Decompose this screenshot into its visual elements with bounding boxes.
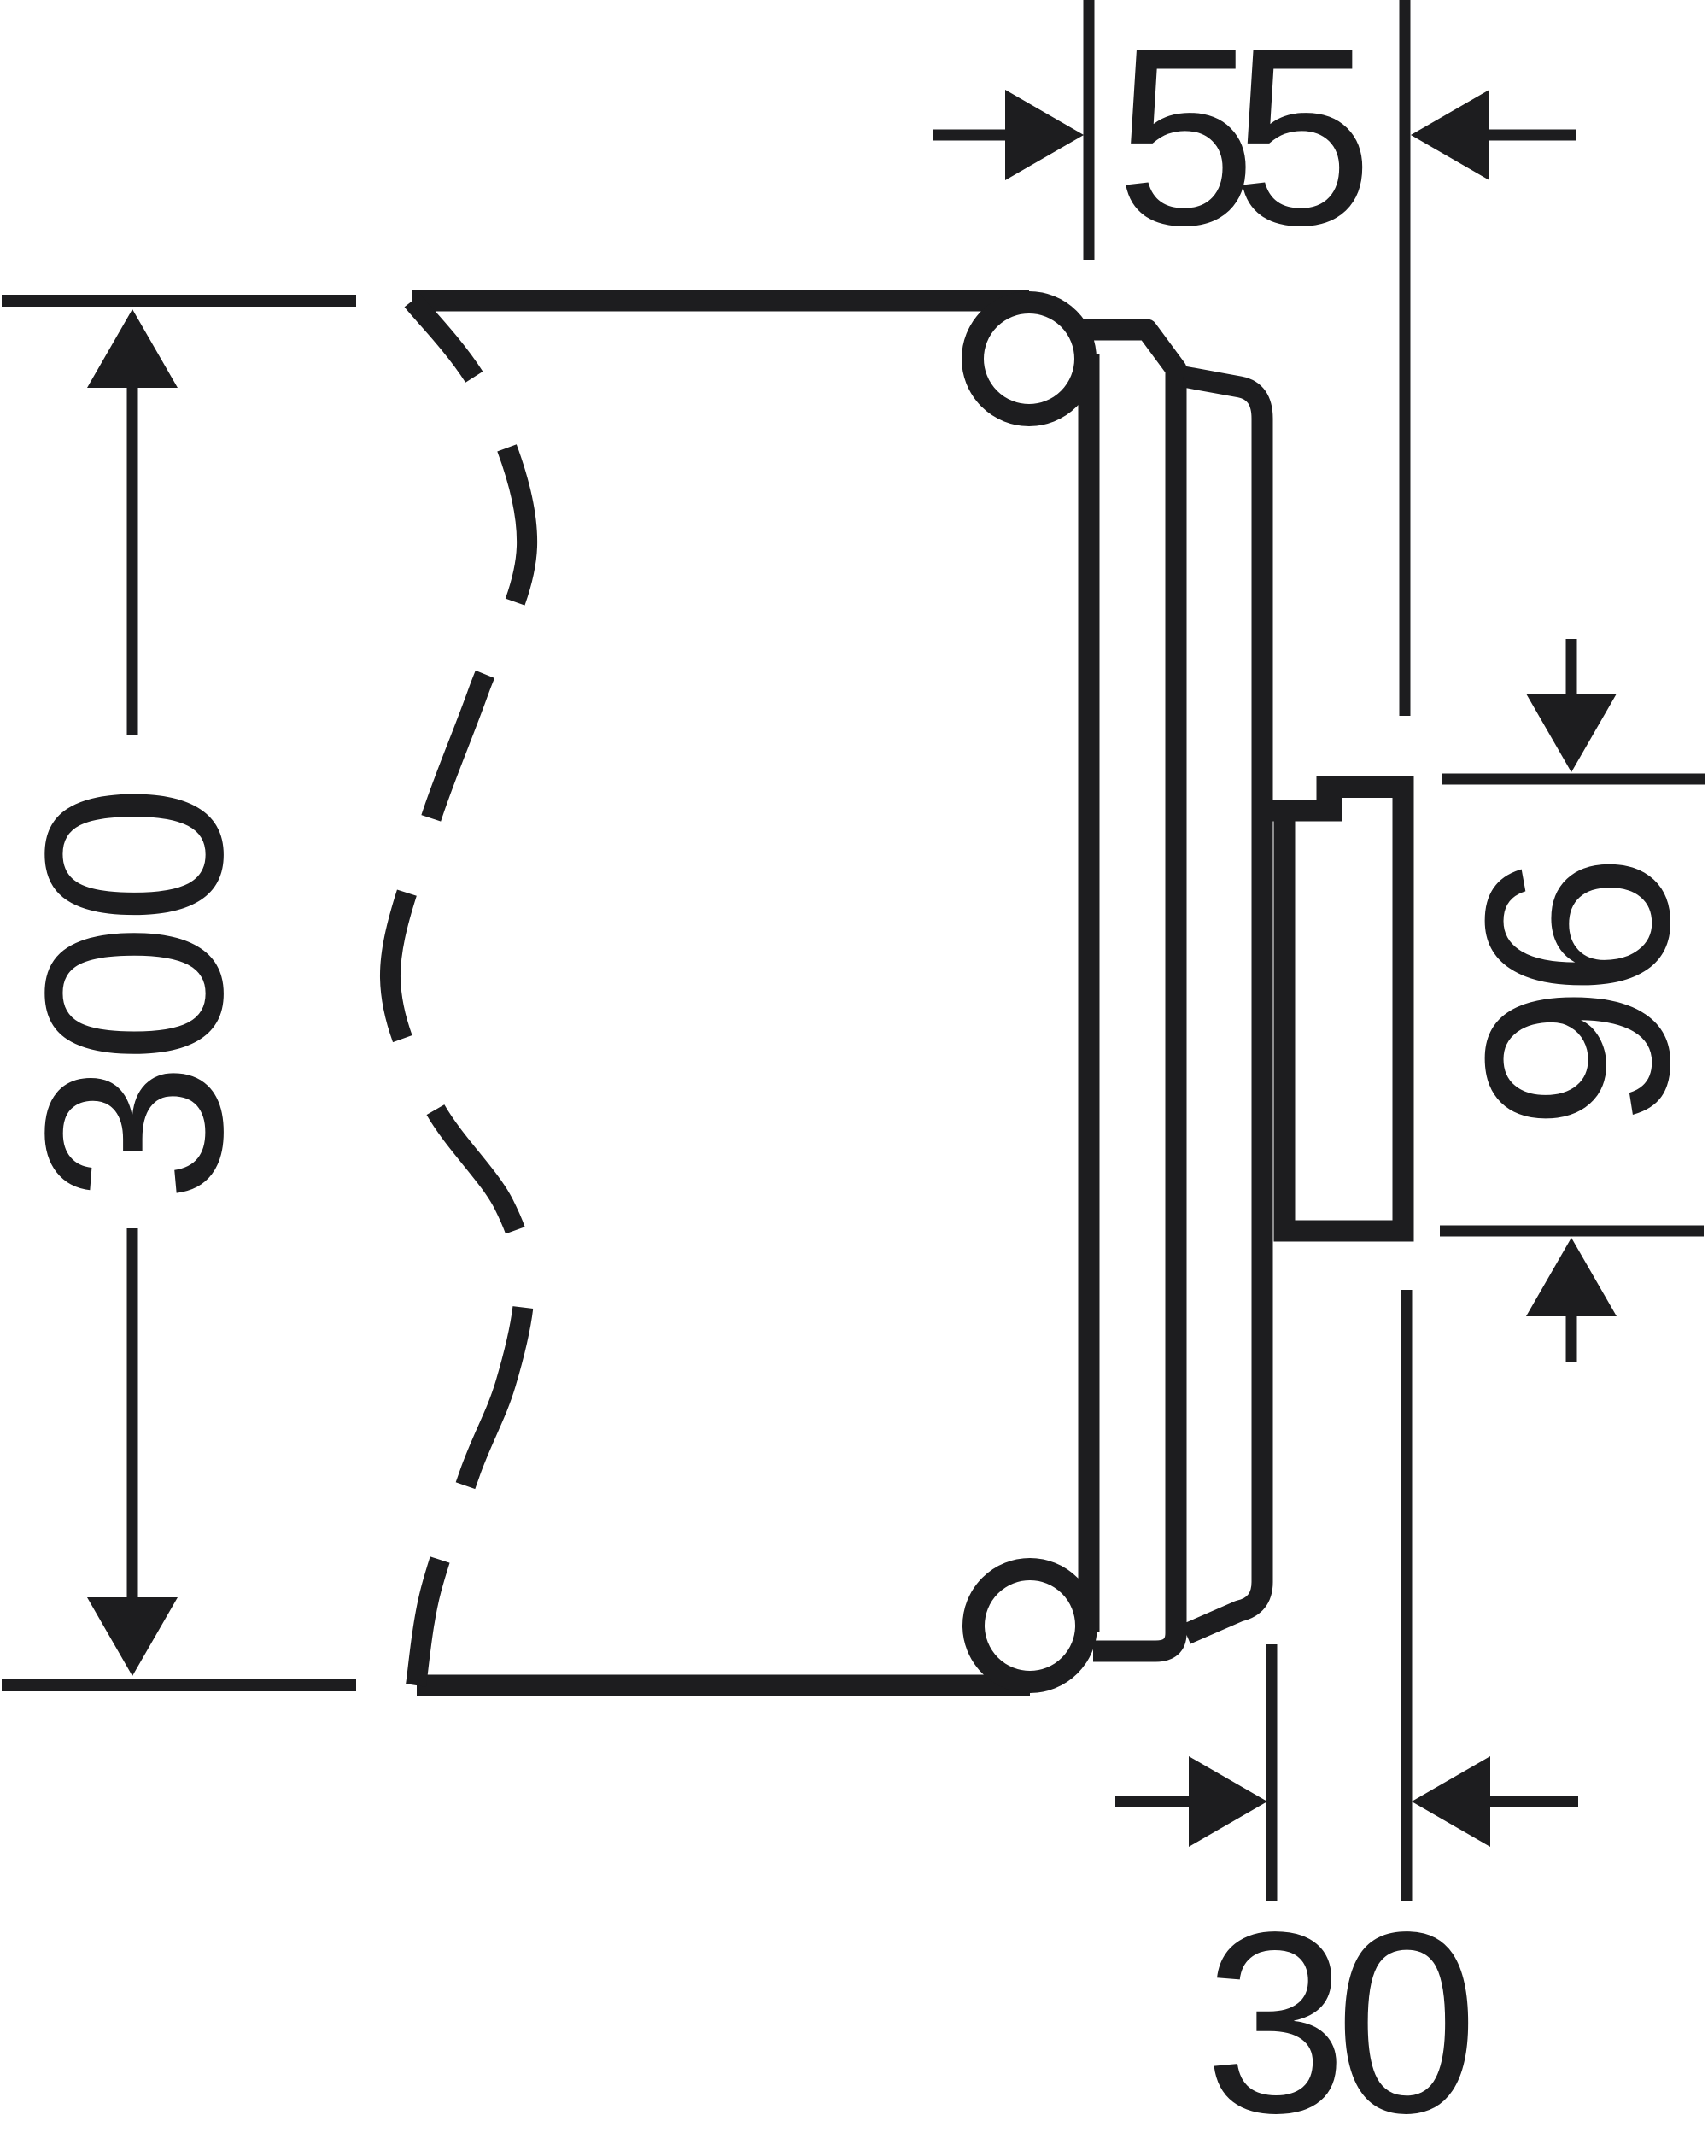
panel bottom edge — [417, 1675, 1030, 1696]
bottom roller circle — [974, 1569, 1086, 1682]
wavy break line (dashed) — [390, 301, 527, 1685]
55 right arrowhead — [1411, 90, 1489, 180]
300 bottom arrowhead — [87, 1597, 178, 1676]
96 bottom arrowhead — [1526, 1238, 1617, 1316]
300 dim line lower segment — [127, 1228, 138, 1597]
housing layer B profile — [1078, 330, 1176, 1651]
30 left extension line — [1266, 1644, 1278, 1901]
300 top arrowhead — [87, 309, 178, 388]
panel rear face line A — [1079, 354, 1100, 1632]
svg-text:300: 300 — [0, 786, 275, 1203]
55 left arrowhead — [1005, 90, 1084, 180]
30 left arrowhead — [1189, 1756, 1267, 1847]
96 dim line bottom — [1440, 1226, 1704, 1237]
30 right arrow tail — [1490, 1796, 1578, 1807]
55 left arrow tail — [933, 130, 1008, 141]
top roller circle — [973, 302, 1085, 415]
55 right arrow tail — [1489, 130, 1576, 141]
300 dim line upper segment — [127, 388, 138, 735]
30 left arrow tail — [1115, 1796, 1189, 1807]
55 dim right extension line — [1400, 0, 1411, 716]
svg-text:96: 96 — [1431, 864, 1708, 1131]
svg-text:55: 55 — [1115, 0, 1362, 278]
30 right extension line — [1401, 1290, 1413, 1901]
30 right arrowhead — [1412, 1756, 1490, 1847]
panel top edge — [412, 290, 1029, 312]
wall bracket (tab, step, faces) — [1264, 776, 1414, 1242]
55 dim left extension line — [1084, 0, 1095, 260]
96 top arrowhead — [1526, 694, 1617, 772]
96 dim line top — [1442, 774, 1705, 785]
extension line top-left (300 dim, top) — [2, 295, 356, 307]
back plate C profile — [1184, 377, 1262, 1634]
96 bottom arrow tail — [1566, 1315, 1577, 1362]
svg-text:30: 30 — [1204, 1878, 1471, 2156]
extension line bottom-left (300 dim, bottom) — [2, 1679, 356, 1691]
96 top arrow tail — [1566, 639, 1577, 695]
